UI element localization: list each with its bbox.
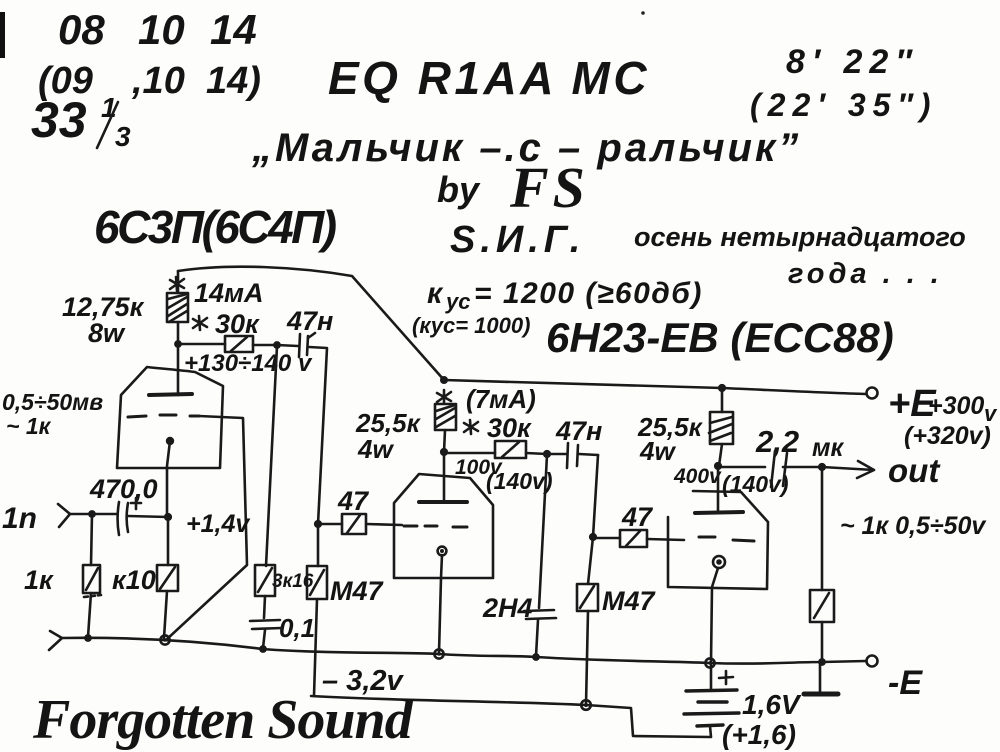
label 25,5k 4W (2) — [355, 408, 422, 464]
svg-text:47н: 47н — [555, 416, 602, 446]
title tube 6S3P (6S4P) — [94, 201, 336, 253]
label Kus = 1200 (>=60db) — [427, 277, 703, 314]
node 2N4/rail — [532, 653, 540, 661]
scan edge mark — [0, 12, 5, 58]
label +130:140v — [184, 350, 313, 377]
title (22' 35") — [750, 87, 937, 123]
svg-text:года . . .: года . . . — [788, 258, 943, 290]
title date (09 10 14) — [38, 60, 261, 102]
node plate V1 — [174, 340, 182, 348]
anode V3 — [695, 512, 743, 513]
svg-text:by: by — [437, 169, 481, 210]
svg-text:30к: 30к — [487, 413, 532, 443]
svg-text:(7мА): (7мА) — [466, 384, 536, 414]
label 0,5:50mv — [2, 389, 103, 415]
svg-text:3: 3 — [115, 121, 131, 152]
label out — [888, 452, 941, 489]
svg-text:out: out — [888, 452, 941, 489]
label 1,6V — [742, 689, 802, 720]
asterisk at R1 — [170, 277, 184, 291]
label 12,75k 8W — [62, 292, 145, 348]
svg-text:М47: М47 — [330, 576, 385, 606]
node cathode V2/rail (ring) — [434, 649, 443, 658]
svg-text:(140v): (140v) — [486, 468, 552, 494]
title by FS — [437, 155, 589, 220]
svg-text:М47: М47 — [602, 586, 657, 616]
resistor 1k input load — [83, 514, 101, 637]
terminal 0 -E — [867, 656, 878, 667]
svg-text:к: к — [427, 277, 444, 310]
svg-text:EQ R1AA MC: EQ R1AA MC — [328, 52, 650, 104]
asterisk at R2 — [437, 390, 451, 403]
svg-text:-Е: -Е — [888, 664, 923, 702]
node cathode V3/rail (ring) — [705, 658, 714, 667]
tube V2 envelope — [394, 474, 493, 578]
svg-text:6Н23-ЕВ (ЕСС88): 6Н23-ЕВ (ЕСС88) — [546, 314, 894, 361]
resistor R2 25,5k plate load — [435, 404, 456, 452]
ink speck — [641, 11, 645, 15]
tube V3 envelope — [668, 491, 768, 589]
node grid stopper V2 — [314, 520, 322, 528]
svg-text:(+1,6): (+1,6) — [722, 719, 796, 750]
svg-text:S.И.Г.: S.И.Г. — [450, 219, 585, 261]
resistor M47 (1) — [307, 566, 327, 696]
label 1k — [24, 565, 54, 595]
signature Forgotten Sound — [32, 689, 414, 751]
wire plate V1 to 30k — [178, 343, 225, 346]
label -3,2v — [322, 665, 404, 697]
input terminal tick — [58, 504, 70, 527]
svg-text:1,6V: 1,6V — [742, 689, 802, 720]
label In — [2, 502, 37, 535]
svg-text:30к: 30к — [215, 309, 260, 339]
anode V1 — [149, 394, 192, 395]
svg-text:+300: +300 — [928, 392, 984, 420]
svg-text:ус: ус — [445, 289, 470, 314]
svg-text:~ 1к 0,5÷50v: ~ 1к 0,5÷50v — [840, 512, 987, 540]
svg-text:+130÷140 v: +130÷140 v — [184, 350, 313, 377]
cathode V1 — [166, 437, 174, 445]
svg-text:FS: FS — [509, 155, 589, 220]
label 400v (140v) (3) — [673, 465, 788, 497]
wire 30k to 47n — [253, 344, 277, 347]
battery 1,6V — [684, 663, 739, 737]
label 0,1 — [279, 613, 315, 643]
node plate V2 — [440, 448, 448, 456]
resistor 3k16 — [255, 565, 275, 618]
title EQ RIAA MC — [328, 52, 650, 104]
svg-text:1к: 1к — [24, 565, 54, 595]
svg-text:= 1200 (≥60дб): = 1200 (≥60дб) — [474, 277, 703, 310]
label ~1k 0,5:50v — [840, 512, 987, 540]
label (+1,6) — [722, 719, 796, 750]
label 470,0 — [89, 474, 158, 504]
svg-text:0,5÷50мв: 0,5÷50мв — [2, 389, 103, 415]
resistor M47 (2) — [577, 537, 598, 705]
label 47n (2) — [555, 416, 602, 446]
bias rail -3,2v — [311, 696, 710, 737]
node 0,1/rail — [259, 645, 267, 653]
svg-text:400v: 400v — [673, 465, 722, 488]
svg-text:2,2: 2,2 — [755, 424, 799, 459]
resistor 47 grid stopper V2 — [318, 514, 402, 534]
grid V1 (dashed) — [128, 415, 199, 417]
label (Kus=1000) — [412, 313, 530, 338]
node 30k/47n junction — [273, 341, 281, 349]
cathode V3 (ring) — [713, 556, 725, 568]
title S.I.G. — [450, 219, 585, 261]
cathode V2 — [438, 547, 447, 556]
title tube 6N23-EB (ECC88) — [546, 314, 894, 361]
title 33 1/3 — [31, 92, 131, 152]
svg-text:мк: мк — [812, 434, 844, 462]
label 47 (2) — [621, 502, 654, 532]
slash of 33 1/3 — [97, 102, 118, 148]
wire input — [70, 513, 116, 516]
label (7mA) — [466, 384, 536, 414]
wire 470,0 to cathode node — [128, 516, 168, 517]
svg-text:4w: 4w — [639, 436, 676, 466]
title 8' 22" — [786, 43, 919, 81]
svg-text:к10: к10 — [112, 565, 156, 595]
label (+320v) — [904, 422, 991, 450]
terminal +E — [867, 388, 878, 399]
title Malchik-s-palchik — [251, 126, 801, 170]
svg-text:(22′ 35″): (22′ 35″) — [750, 87, 937, 123]
resistor 30k (1) — [225, 336, 253, 352]
label 3k16 — [272, 571, 314, 592]
label 47n — [286, 306, 333, 336]
svg-text:47н: 47н — [286, 306, 333, 336]
svg-text:1n: 1n — [2, 502, 37, 535]
label * 30k (2) — [487, 413, 532, 443]
resistor 30k (2) — [495, 441, 526, 458]
resistor ~1k output load — [810, 467, 834, 661]
label * 30k — [215, 309, 260, 339]
node cathode V1 / K10 — [164, 513, 172, 521]
anode V2 — [419, 500, 467, 504]
ground symbol at load — [819, 662, 822, 692]
label +E +300v — [888, 383, 998, 426]
node +E / stage2 — [440, 376, 448, 384]
wire 47n to M47 branch — [309, 347, 327, 566]
node out — [818, 463, 826, 471]
capacitor 2,2mk output — [718, 451, 822, 487]
label K10 — [112, 565, 156, 595]
grid V3 (dashed) — [699, 537, 754, 541]
capacitor 47n (1) — [299, 333, 315, 357]
svg-text:47: 47 — [621, 502, 654, 532]
svg-text:0,1: 0,1 — [279, 613, 315, 643]
label 2,2 mk — [755, 424, 844, 462]
node M47(2)/bias (ring) — [581, 700, 591, 710]
node K10/grid/rail (ring) — [160, 635, 169, 644]
label 14mA — [194, 278, 264, 308]
node 1k/rail — [84, 634, 92, 642]
title date 08 10 14 — [58, 6, 257, 53]
svg-text:8w: 8w — [88, 318, 126, 348]
svg-text:47: 47 — [337, 486, 370, 516]
supply rail +E — [444, 380, 866, 394]
svg-text:470,0: 470,0 — [89, 474, 158, 504]
ground rail — [49, 631, 62, 650]
svg-text:33: 33 — [31, 92, 87, 148]
svg-text:14мА: 14мА — [194, 278, 264, 308]
capacitor 470,0 — [118, 498, 142, 535]
resistor R3 25,5k plate load — [709, 388, 733, 466]
svg-text:(кус= 1000): (кус= 1000) — [412, 313, 530, 338]
capacitor 0,1 — [250, 620, 282, 648]
wire plate V2 to 30k — [444, 452, 495, 455]
resistor K10 cathode — [157, 517, 178, 638]
node plate V3 — [714, 462, 722, 470]
svg-text:4w: 4w — [357, 434, 394, 464]
svg-text:осень нетырнадцатого: осень нетырнадцатого — [634, 222, 966, 252]
resistor R1 12,75k plate load — [167, 271, 188, 343]
svg-text:081014: 081014 — [58, 6, 257, 53]
label 2N4 — [482, 593, 533, 623]
label 100v (140v) (2) — [455, 456, 552, 494]
svg-text:~ 1к: ~ 1к — [6, 413, 52, 439]
svg-text:8′ 22″: 8′ 22″ — [786, 43, 919, 81]
node 30k/47n/2N4 — [543, 450, 551, 458]
node load/rail — [818, 658, 826, 666]
title osen chetyrnadtsatogo goda — [634, 222, 966, 290]
output arrow — [822, 461, 874, 478]
capacitor 2N4 — [524, 455, 556, 656]
svg-text:Forgotten Sound: Forgotten Sound — [32, 689, 414, 751]
svg-text:6С3П(6С4П): 6С3П(6С4П) — [94, 201, 336, 253]
wire grid V1 to ground rail — [166, 416, 247, 640]
label ~1k (input) — [6, 413, 52, 439]
svg-text:+1,4v: +1,4v — [186, 510, 251, 538]
node input/1k — [88, 510, 96, 518]
resistor 47 grid stopper V3 — [593, 530, 684, 547]
node 25,5k(3)/rail — [718, 384, 726, 392]
wire 47n to grid node V3 — [593, 455, 598, 537]
label M47 (1) — [330, 576, 385, 606]
node grid V3 — [589, 533, 597, 541]
capacitor 47n (2) — [547, 443, 598, 468]
label 47 (1) — [337, 486, 370, 516]
label 25,5k 4W (3) — [637, 412, 704, 466]
label M47 (2) — [602, 586, 657, 616]
svg-text:(+320v): (+320v) — [904, 422, 991, 450]
wire +E rail to R1 top (long top wire with diagonal) — [178, 267, 444, 380]
wire 30k/47n junction down to 3k16 — [266, 346, 277, 566]
grid V2 (dashed) — [404, 526, 467, 527]
label +1,4v — [186, 510, 251, 538]
wire 30k to 47n (2) — [526, 453, 547, 454]
tube V1 6S3P envelope — [117, 367, 223, 468]
